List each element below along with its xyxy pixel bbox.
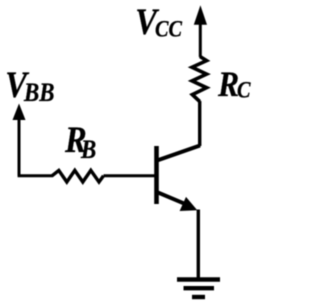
wire from RC down to collector corner bbox=[198, 101, 201, 146]
transistor Q1 base bar bbox=[154, 146, 159, 204]
resistor RC bbox=[192, 57, 207, 102]
node VCC label bbox=[135, 1, 182, 42]
label RC bbox=[217, 65, 251, 104]
transistor Q1 emitter lead with arrow bbox=[158, 192, 198, 211]
wire from RB to transistor base bbox=[104, 174, 156, 177]
transistor Q1 collector lead bbox=[157, 146, 200, 161]
svg-text:C: C bbox=[237, 77, 251, 102]
svg-text:BB: BB bbox=[23, 79, 54, 108]
wire from emitter arrow down to ground bbox=[197, 210, 200, 280]
ground symbol bbox=[177, 280, 220, 298]
node VBB label bbox=[5, 64, 54, 107]
svg-text:CC: CC bbox=[155, 16, 183, 41]
resistor RB bbox=[52, 170, 104, 182]
wire from VBB corner to resistor RB bbox=[18, 174, 53, 177]
svg-text:R: R bbox=[217, 65, 239, 104]
VCC supply arrow bbox=[194, 5, 207, 57]
svg-text:B: B bbox=[80, 136, 96, 165]
label RB bbox=[64, 119, 96, 164]
VBB supply arrow bbox=[13, 104, 26, 176]
